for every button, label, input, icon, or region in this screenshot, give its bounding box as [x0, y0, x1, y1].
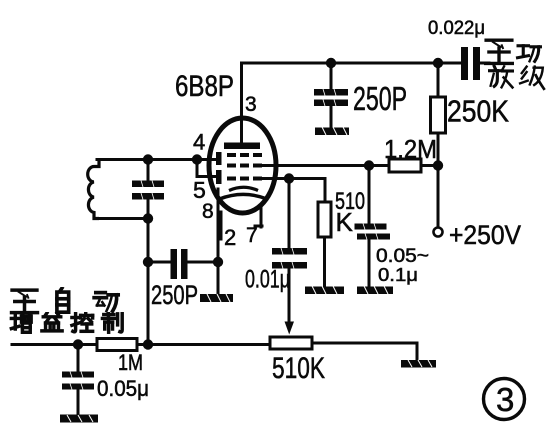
- wire: left vertical bus down to AGC line: [147, 219, 150, 345]
- ground: potentiometer return: [401, 360, 436, 368]
- node: AGC line / left bus: [143, 339, 153, 349]
- wire: rail stub right of 0.022u cap: [481, 62, 489, 65]
- wire: 0.01u cap top lead: [288, 179, 291, 249]
- text: to AGC line1 (至自动): [12, 288, 119, 312]
- svg-text:1.2M: 1.2M: [384, 134, 437, 164]
- node: AGC line / 0.05u cap: [73, 339, 83, 349]
- svg-text:8: 8: [202, 200, 214, 223]
- wire: pin5 jumper: [197, 160, 216, 177]
- wire: 250P top cap lower lead to ground: [330, 105, 333, 128]
- svg-text:510K: 510K: [272, 352, 325, 385]
- node: suppressor / 0.01u: [284, 173, 294, 183]
- figure number circle 3: [484, 379, 525, 420]
- cap plate hatch marks: [70, 89, 378, 390]
- svg-text:0.05~: 0.05~: [376, 246, 429, 267]
- svg-text:0.022μ: 0.022μ: [428, 18, 485, 39]
- wire: 0.05u cap top lead: [77, 345, 80, 372]
- svg-text:250P: 250P: [353, 80, 407, 117]
- wire: top plate rail from pin3 corner to 0.022u cap: [242, 63, 462, 147]
- svg-text:0.01μ: 0.01μ: [245, 266, 290, 294]
- resistor R 510K (vertical): [318, 202, 331, 237]
- wire: heater pin 2 lead: [220, 212, 223, 239]
- tube heater arc: [220, 194, 266, 199]
- wire: 0.01u cap bottom lead to arrow: [288, 269, 291, 320]
- svg-text:6B8P: 6B8P: [175, 70, 234, 103]
- wire: 0.05u cap bottom lead to ground: [77, 390, 80, 416]
- svg-text:250P: 250P: [151, 280, 198, 310]
- svg-text:0.05μ: 0.05μ: [97, 376, 149, 401]
- capacitor 250P coupling plates: [171, 249, 188, 279]
- wire: 1.2M right lead to node: [421, 164, 438, 167]
- tube diode plate lower (pin5): [216, 170, 222, 184]
- svg-text:0.1μ: 0.1μ: [378, 265, 418, 285]
- tube V1 6B8P envelope: [209, 118, 276, 213]
- capacitor 0.022u plates: [461, 47, 480, 80]
- wire: AGC line from 1M to potentiometer: [137, 343, 270, 346]
- wire: tank top lead to pins 4/5: [97, 158, 216, 161]
- wire: cathode node down to ground: [217, 262, 220, 295]
- terminal +250V circle: [434, 228, 443, 237]
- resistor R 250K: [431, 97, 446, 133]
- ground: 0.05-0.1u cap: [357, 286, 393, 294]
- svg-text:3: 3: [245, 93, 257, 116]
- coil L (tank inductor): [88, 160, 99, 219]
- wire: tank cap top lead: [147, 160, 150, 182]
- wire: 250K lower lead down through 1.2M node to +250V terminal: [437, 133, 440, 228]
- text: to power amp stage (至功放级): [486, 40, 544, 89]
- wire: 250P coupling cap left lead: [148, 261, 170, 264]
- tube grid dashes row 3: [227, 177, 262, 181]
- wire: suppressor line from tube to 510K resistor: [262, 179, 325, 203]
- wire: 510K resistor bottom lead to ground: [323, 237, 326, 287]
- ground: 0.05u cap: [60, 415, 98, 423]
- ground: cathode: [200, 294, 233, 302]
- svg-text:+250V: +250V: [449, 220, 521, 250]
- tube anode plate bar: [224, 143, 260, 150]
- wire: 250K upper lead: [437, 63, 440, 97]
- svg-text:K: K: [336, 207, 354, 237]
- node: pin4/pin5 tie: [192, 154, 202, 164]
- tube diode plate upper (pin4): [216, 152, 222, 165]
- svg-text:2: 2: [224, 225, 236, 250]
- potentiometer 510K body: [270, 337, 312, 349]
- wire: screen grid line from tube to 1.2M resistor: [262, 164, 389, 167]
- wire: 250P coupling cap right lead to cathode node: [188, 261, 218, 264]
- node: tank bottom / cap: [143, 213, 153, 223]
- wire: heater pin 7 foot: [255, 225, 262, 228]
- svg-text:3: 3: [496, 381, 514, 418]
- node: 250K / 1.2M / +250V: [433, 160, 443, 170]
- capacitor 250P top plates: [314, 89, 348, 106]
- wire: tank bottom lead: [97, 217, 148, 220]
- tube grid dashes row 1: [227, 153, 262, 157]
- resistor R 1.2M: [389, 159, 421, 172]
- ground: 510K resistor: [305, 286, 344, 294]
- node: rail / 250P top cap: [326, 58, 336, 68]
- capacitor 0.01u plates: [272, 248, 307, 269]
- svg-text:4: 4: [193, 130, 205, 155]
- wire: potentiometer right lead to ground: [312, 343, 417, 361]
- svg-text:1M: 1M: [118, 350, 143, 375]
- node: screen line / 0.05-0.1u: [364, 160, 374, 170]
- ground: under 250P top cap: [315, 127, 349, 135]
- text: to AGC line2 (增益控制): [11, 312, 122, 332]
- node: cathode / 250P / ground: [213, 257, 223, 267]
- wire: 250P top cap upper lead: [330, 63, 333, 90]
- capacitor 0.05-0.1u plates: [355, 224, 391, 240]
- svg-text:250K: 250K: [447, 94, 509, 129]
- tube cathode arc: [229, 187, 258, 190]
- wire: 0.05-0.1u cap bottom lead to ground: [368, 240, 371, 288]
- node: tank top / cap: [143, 154, 153, 164]
- node: left bus / 250P coupling cap: [143, 257, 153, 267]
- potentiometer wiper arrow: [285, 322, 295, 335]
- svg-text:7: 7: [246, 224, 258, 247]
- tube grid dashes row 2: [227, 164, 262, 168]
- wire: AGC line left of 1M: [12, 343, 97, 346]
- capacitor 0.05u plates: [62, 372, 94, 390]
- wire: heater pin 7 lead: [260, 208, 263, 227]
- wire: tank cap bottom lead: [147, 199, 150, 219]
- capacitor tank C plates: [132, 181, 164, 200]
- resistor R 1M: [97, 339, 137, 351]
- wire: 0.05-0.1u cap top lead: [368, 166, 371, 224]
- node: rail / 250K / 0.022u: [433, 58, 443, 68]
- wire: cathode pin8 lead: [217, 189, 220, 262]
